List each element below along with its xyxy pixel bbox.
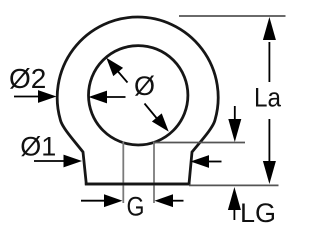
thread line left (tapped hole)	[122, 142, 124, 204]
dimension arrow Ø1 left (points right at base left side)	[34, 155, 82, 168]
svg-text:Ø2: Ø2	[9, 63, 46, 94]
extension line LG top (thread start)	[154, 142, 245, 144]
svg-text:G: G	[127, 191, 145, 221]
dimension arrow La top (points up at top line)	[263, 17, 276, 82]
extension line bottom right	[189, 184, 279, 186]
dimension arrow LG top (points down at thread-start line)	[228, 106, 241, 142]
extension line top (tangent of ring top)	[179, 15, 286, 17]
svg-text:Ø: Ø	[134, 71, 155, 101]
dimension arrow Ø2 (points right at outer circle)	[14, 90, 57, 103]
eye hole (inner circle)	[89, 46, 188, 145]
dimension arrow Ø2 inner (points left at inner circle)	[89, 91, 126, 104]
base bottom edge	[85, 183, 191, 186]
svg-text:La: La	[254, 83, 282, 113]
dimension arrow Ø lower-right diagonal	[145, 104, 174, 136]
dimension arrow Ø1 right (points left at base right side)	[191, 155, 222, 168]
dimension arrow G left (points right at left thread line)	[81, 194, 123, 207]
thread line right (tapped hole)	[153, 142, 155, 204]
dimension arrow La bottom (points down at bottom line)	[263, 119, 276, 184]
svg-text:LG: LG	[240, 198, 276, 228]
dimension arrow G right (points left at right thread line)	[155, 194, 184, 207]
svg-text:Ø1: Ø1	[20, 131, 56, 161]
dimension arrow Ø upper-left diagonal	[101, 54, 127, 83]
dimension arrow LG bottom (points up at bottom line)	[228, 187, 241, 220]
eye-nut body silhouette (ring outer + neck + base)	[57, 17, 218, 184]
